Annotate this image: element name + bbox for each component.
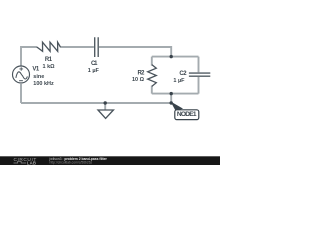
svg-text:R2: R2 xyxy=(138,71,146,77)
svg-text:sine: sine xyxy=(33,74,44,80)
svg-text:100 kHz: 100 kHz xyxy=(33,81,54,87)
svg-text:1 µF: 1 µF xyxy=(88,68,100,74)
svg-text:1 kΩ: 1 kΩ xyxy=(43,64,56,70)
svg-text:1 µF: 1 µF xyxy=(173,78,185,84)
svg-text:R1: R1 xyxy=(45,57,53,63)
svg-text:LAB: LAB xyxy=(27,160,36,165)
svg-text:10 Ω: 10 Ω xyxy=(132,77,145,83)
svg-text:C2: C2 xyxy=(179,71,187,77)
svg-text:NODE1: NODE1 xyxy=(177,111,197,118)
svg-text:http://circuitlab.com/c/56b26z: http://circuitlab.com/c/56b26z xyxy=(50,161,93,165)
svg-text:C1: C1 xyxy=(91,61,98,67)
svg-text:V1: V1 xyxy=(32,67,39,73)
